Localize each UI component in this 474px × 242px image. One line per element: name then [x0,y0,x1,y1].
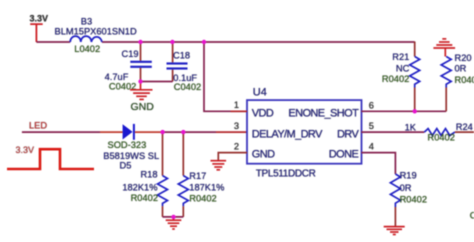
diode D5 [103,124,159,170]
resistor R18 [122,132,167,217]
svg-text:C18: C18 [173,51,190,61]
capacitor C19 [105,42,152,91]
capacitor C18 [167,42,202,92]
wire pin 6 to R21/R20 [361,110,446,112]
svg-text:R0402: R0402 [400,195,427,205]
svg-text:GND: GND [131,101,155,113]
svg-text:DRV: DRV [337,129,359,141]
svg-text:R0402: R0402 [131,193,158,203]
junction dot rail at C19 [138,40,142,44]
junction dot LED net at R18 [160,130,164,134]
svg-text:187K1%: 187K1% [189,183,224,193]
resistor R24 [424,122,474,143]
junction dot rail at VDD drop [202,40,206,44]
svg-text:5: 5 [369,121,374,131]
wire diode to pin 3 [135,131,163,133]
ground under C19/C18 [130,82,152,100]
wire pin 4 down to R19 [361,153,395,174]
svg-text:3: 3 [234,121,239,131]
resistor R21 [382,42,420,112]
svg-text:R24: R24 [456,122,473,132]
svg-text:3.3V: 3.3V [30,13,49,23]
svg-text:DONE: DONE [329,149,359,161]
resistor R19 [390,171,427,227]
wire pin 5 to R24 [361,131,424,133]
svg-text:6: 6 [369,100,374,110]
svg-text:DELAY/M_DRV: DELAY/M_DRV [252,129,323,141]
svg-text:GND: GND [252,149,275,161]
svg-text:3.3V: 3.3V [16,145,35,155]
power symbol 3.3V [30,24,43,42]
svg-text:SOD-323: SOD-323 [108,140,147,150]
wire cap bottoms [141,81,173,83]
svg-text:L0402: L0402 [74,44,100,54]
IC U4 TPL511DDCR body [247,100,362,164]
svg-text:R0402: R0402 [428,133,455,143]
svg-text:R0402: R0402 [455,75,474,85]
wire 3.3V rail [36,41,414,43]
svg-text:R0402: R0402 [189,194,216,204]
wire R18/R17 bottoms [163,216,184,218]
svg-text:BLM15PX601SN1D: BLM15PX601SN1D [55,27,137,37]
svg-text:1K: 1K [405,123,417,133]
svg-text:1: 1 [234,100,239,110]
wire VDD from rail to pin 1 [204,42,247,111]
inductor B3 [70,36,102,42]
svg-text:0R: 0R [400,183,412,193]
svg-text:D5: D5 [120,160,132,170]
waveform symbol 3.3V pulse [7,149,94,169]
svg-text:VDD: VDD [252,107,274,119]
ground under R18/R17 [166,217,182,229]
svg-text:R0402: R0402 [382,74,409,84]
junction dot R18/R17 bottom ground node [171,215,175,219]
svg-text:4: 4 [369,142,374,152]
svg-text:C: C [470,210,474,220]
junction dot rail at C18 [170,40,174,44]
svg-text:R20: R20 [455,53,472,63]
svg-text:R19: R19 [400,171,417,181]
ground under R19 [384,227,405,235]
ground at pin 2 [211,161,227,170]
svg-text:C0402: C0402 [174,82,201,92]
node junction dot pin6 net [413,109,417,113]
svg-text:B3: B3 [81,16,92,26]
svg-text:R21: R21 [392,52,409,62]
resistor R20 [441,53,474,111]
svg-text:LED: LED [29,121,47,131]
svg-text:0R: 0R [455,63,467,73]
svg-text:C19: C19 [122,49,139,59]
resistor R17 [178,132,224,217]
svg-text:ENONE_SHOT: ENONE_SHOT [288,107,359,119]
junction dot LED net at R17 [181,130,185,134]
svg-text:TPL511DDCR: TPL511DDCR [256,168,316,179]
svg-text:NC: NC [396,63,410,73]
svg-text:2: 2 [234,141,239,151]
svg-text:R18: R18 [140,169,157,179]
junction dot C19 bottom / ground node [138,79,142,83]
svg-text:R17: R17 [189,171,206,181]
power symbol above R20 [433,39,455,57]
wire net LED to diode D5 anode [22,131,100,133]
svg-text:U4: U4 [253,86,267,98]
svg-text:182K1%: 182K1% [122,183,157,193]
